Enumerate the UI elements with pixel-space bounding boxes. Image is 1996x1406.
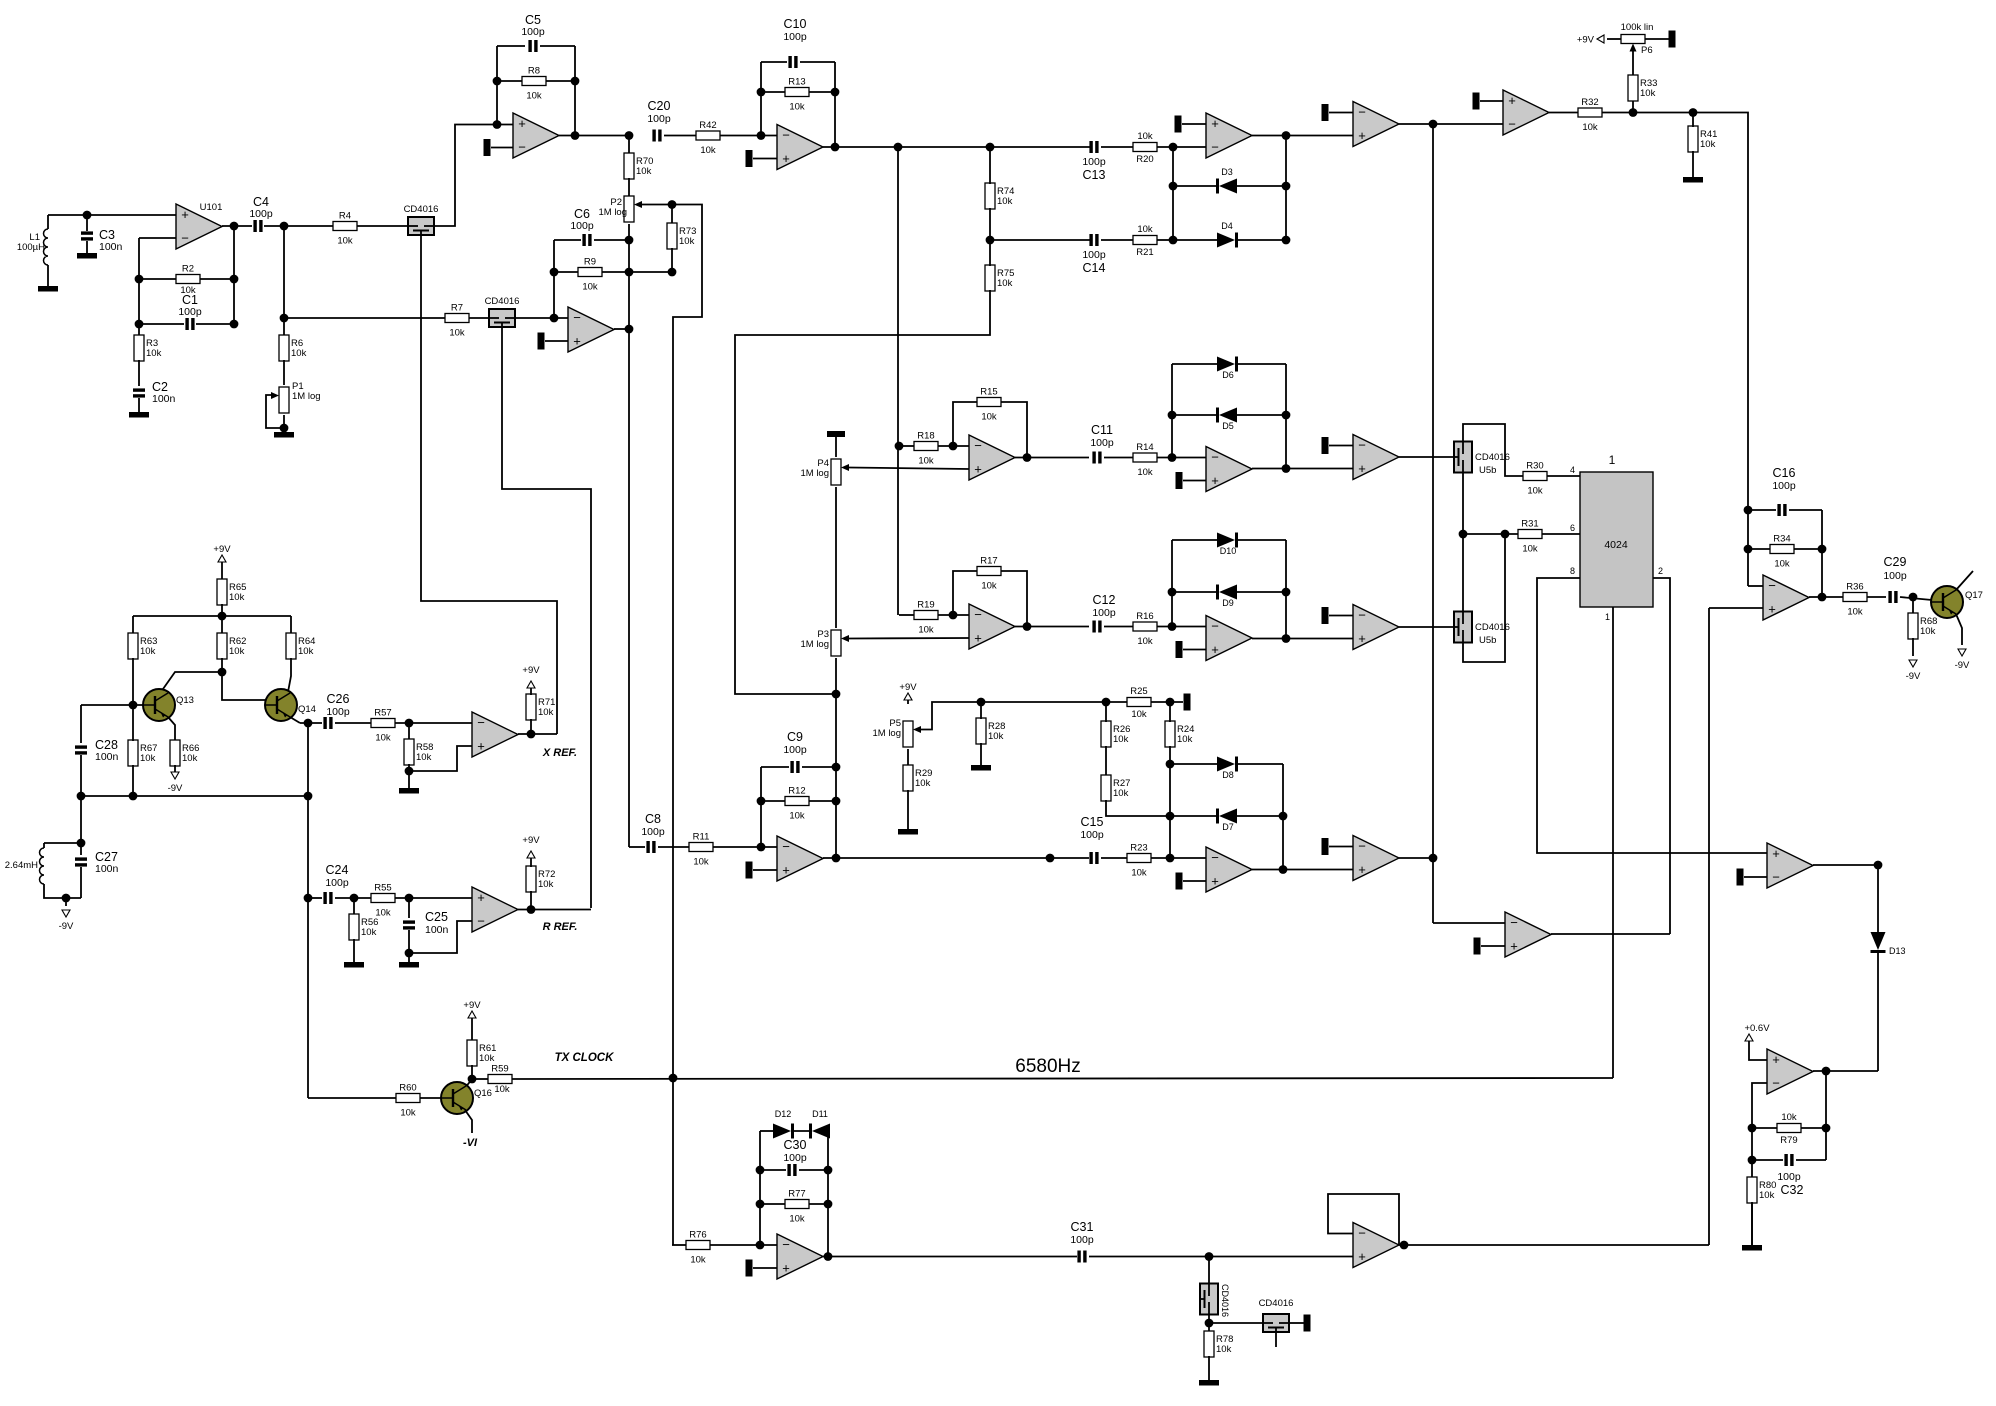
- capacitor C15: [1089, 852, 1092, 864]
- wire R7 to switch: [469, 317, 489, 319]
- svg-text:100n: 100n: [95, 751, 119, 763]
- wire R60 to Q16: [420, 1097, 442, 1099]
- wire R13 left node: [760, 62, 762, 136]
- wire ref to A3: [753, 869, 777, 871]
- resistor R63: [128, 633, 138, 659]
- svg-text:10k: 10k: [918, 456, 934, 467]
- svg-text:+: +: [181, 207, 189, 222]
- capacitor C30: [787, 1164, 790, 1176]
- svg-text:R32: R32: [1581, 97, 1598, 108]
- svg-text:R23: R23: [1130, 843, 1147, 854]
- svg-text:10k: 10k: [789, 102, 805, 113]
- power arrow: [1745, 1034, 1753, 1041]
- svg-text:C32: C32: [1781, 1183, 1804, 1197]
- resistor R42: [696, 131, 720, 140]
- wire P2 bottom bus: [628, 224, 630, 847]
- wire D3 right: [1237, 185, 1286, 187]
- wire input to U101: [48, 214, 176, 216]
- junction A5 out: [1282, 131, 1291, 140]
- resistor R3: [134, 335, 144, 361]
- wire C6 right: [594, 239, 629, 241]
- wire A9 output: [1015, 626, 1089, 628]
- svg-text:1M log: 1M log: [800, 468, 829, 479]
- resistor R75: [985, 265, 995, 291]
- resistor R70: [624, 153, 634, 179]
- wire R72 top: [530, 858, 532, 867]
- wire to A16: [1433, 922, 1505, 924]
- capacitor C12: [1092, 621, 1095, 633]
- resistor R23: [1127, 854, 1151, 863]
- junction emitter: [304, 719, 313, 728]
- svg-text:+: +: [1211, 473, 1219, 488]
- svg-text:Q17: Q17: [1965, 590, 1983, 601]
- wire to D8: [1170, 763, 1217, 765]
- wire R20 to ampA: [1157, 146, 1206, 148]
- svg-text:P6: P6: [1641, 45, 1653, 56]
- wire to R62: [221, 616, 223, 634]
- junction R77 left: [756, 1200, 765, 1209]
- wire C30 right: [799, 1169, 828, 1171]
- wire R3 to C2: [138, 360, 140, 386]
- wire to R59: [472, 1078, 488, 1080]
- svg-text:C20: C20: [648, 99, 671, 113]
- diode D3: [1219, 179, 1237, 194]
- junction R70 top: [625, 131, 634, 140]
- resistor R30: [1523, 472, 1547, 481]
- wire to R70: [628, 136, 630, 155]
- wire to switch: [1208, 1257, 1210, 1285]
- wire U101 output: [222, 225, 252, 227]
- wire P6 right: [1645, 38, 1669, 40]
- op-amp A4: [777, 125, 823, 170]
- junction C4 node: [280, 222, 289, 231]
- svg-text:R11: R11: [693, 832, 710, 843]
- resistor R73: [667, 223, 677, 249]
- svg-text:100p: 100p: [1883, 570, 1907, 582]
- wire switch1 control bus: [421, 236, 557, 734]
- junction R9 left: [550, 268, 559, 277]
- svg-text:C6: C6: [574, 207, 590, 221]
- resistor R18: [914, 442, 938, 451]
- svg-text:X REF.: X REF.: [542, 747, 577, 759]
- wire R27 to D7: [1106, 800, 1170, 816]
- svg-text:−: −: [518, 140, 526, 155]
- ground R29: [898, 829, 918, 835]
- wire C2 bottom: [138, 398, 140, 412]
- reference bar A4: [746, 150, 753, 167]
- wire A18 inverting node: [1752, 1083, 1767, 1245]
- svg-text:1M log: 1M log: [598, 207, 627, 218]
- op-amp A9: [969, 604, 1015, 649]
- junction R2 left: [135, 275, 144, 284]
- wire R79 right: [1801, 1127, 1826, 1129]
- svg-text:Q14: Q14: [298, 704, 316, 715]
- wire switch chain: [1462, 473, 1464, 611]
- wire ref to A13: [1329, 615, 1353, 617]
- junction A19 out: [1818, 593, 1827, 602]
- svg-text:10k: 10k: [1640, 88, 1656, 99]
- svg-text:−: −: [974, 438, 982, 453]
- potentiometer P1: [279, 387, 289, 413]
- resistor R6: [279, 335, 289, 361]
- wire C3 bottom: [86, 241, 88, 253]
- capacitor C20: [652, 130, 655, 142]
- svg-text:10k: 10k: [140, 753, 156, 764]
- wire to P4: [835, 437, 837, 457]
- junction supply rail: [218, 612, 227, 621]
- svg-text:R79: R79: [1780, 1135, 1797, 1146]
- op-amp A7: [1503, 90, 1549, 135]
- wire D4 right: [1237, 239, 1286, 241]
- svg-text:6580Hz: 6580Hz: [1015, 1056, 1081, 1077]
- junction rail right: [304, 792, 313, 801]
- svg-text:10k: 10k: [981, 412, 997, 423]
- wire ref to A2: [545, 340, 568, 342]
- wire C4 to R4: [264, 225, 333, 227]
- junction rail R67: [129, 792, 138, 801]
- svg-text:R REF.: R REF.: [543, 921, 578, 933]
- svg-text:10k: 10k: [229, 592, 245, 603]
- svg-text:R36: R36: [1846, 582, 1863, 593]
- wire rail to tank: [80, 796, 82, 843]
- wire C25 to - input: [409, 921, 472, 953]
- svg-text:10k: 10k: [1216, 1344, 1232, 1355]
- wire C28 bottom: [80, 755, 82, 796]
- diode D6: [1217, 357, 1235, 372]
- ground R58: [399, 788, 419, 794]
- svg-text:−: −: [1211, 450, 1219, 465]
- wire to R73: [671, 205, 673, 225]
- svg-text:1: 1: [1609, 453, 1616, 467]
- svg-text:CD4016: CD4016: [1259, 1298, 1294, 1309]
- wire P3 bottom: [835, 658, 837, 694]
- op-amp A23: [1353, 1223, 1399, 1268]
- wire to R60: [308, 1097, 396, 1099]
- junction mid: [1046, 854, 1055, 863]
- svg-text:−: −: [1358, 839, 1366, 854]
- wire ref to A22: [753, 1267, 777, 1269]
- wire R63 bottom: [132, 658, 134, 705]
- svg-text:−: −: [1772, 1076, 1780, 1091]
- wire coil bottom: [44, 884, 81, 898]
- op-amp A13: [1353, 605, 1399, 650]
- transistor Q17: [1931, 586, 1963, 618]
- junction A22 out: [824, 1252, 833, 1261]
- junction C1 left: [135, 320, 144, 329]
- inductor L1: [44, 229, 49, 265]
- wire to Q16 collector: [465, 1079, 472, 1088]
- wire tank top: [44, 842, 81, 844]
- svg-text:10k: 10k: [1113, 734, 1129, 745]
- svg-text:100p: 100p: [783, 1152, 807, 1164]
- svg-text:10k: 10k: [1847, 607, 1863, 618]
- junction D7 left: [1166, 812, 1175, 821]
- power arrow: [527, 681, 535, 688]
- svg-text:R14: R14: [1136, 442, 1153, 453]
- wire to R79: [1752, 1127, 1777, 1129]
- IC 4024: [1580, 472, 1653, 607]
- wire amp3 output bus: [835, 694, 837, 858]
- svg-text:10k: 10k: [291, 348, 307, 359]
- svg-text:+: +: [1358, 128, 1366, 143]
- wire D6 right: [1237, 363, 1286, 365]
- resistor R21: [1133, 236, 1157, 245]
- svg-text:100n: 100n: [99, 241, 123, 253]
- svg-text:−: −: [782, 1237, 790, 1252]
- resistor R2: [176, 275, 200, 284]
- svg-text:R19: R19: [917, 600, 934, 611]
- svg-text:U5b: U5b: [1479, 465, 1496, 476]
- svg-text:10k: 10k: [1137, 131, 1153, 142]
- resistor R34: [1770, 545, 1794, 554]
- analog switch CD4016 U1b: [489, 309, 515, 327]
- svg-text:10k: 10k: [789, 1214, 805, 1225]
- capacitor C8: [646, 841, 649, 853]
- svg-text:−: −: [782, 839, 790, 854]
- svg-text:R57: R57: [374, 708, 391, 719]
- wire R6 to P1: [283, 360, 285, 385]
- capacitor C27: [75, 857, 87, 860]
- svg-text:D9: D9: [1222, 598, 1234, 608]
- wire to R34: [1748, 548, 1770, 550]
- svg-text:10k: 10k: [918, 625, 934, 636]
- svg-text:10k: 10k: [1113, 788, 1129, 799]
- wire R65 bottom: [221, 604, 223, 616]
- wire to C14: [990, 239, 1090, 241]
- op-amp A19: [1763, 575, 1809, 620]
- wire to D13: [1877, 865, 1879, 936]
- svg-text:10k: 10k: [146, 348, 162, 359]
- wire P5 to R29: [907, 749, 909, 766]
- capacitor C25: [403, 920, 415, 923]
- wire A23 feedback loop: [1328, 1194, 1399, 1245]
- reference bar P6: [1669, 31, 1676, 48]
- diode D8: [1217, 757, 1235, 772]
- wire to C16: [1748, 509, 1776, 511]
- svg-text:R60: R60: [399, 1083, 416, 1094]
- wire to R41: [1692, 113, 1694, 128]
- ground R41: [1683, 177, 1703, 183]
- op-amp A3: [777, 836, 823, 881]
- transistor Q14: [265, 689, 297, 721]
- resistor R32: [1578, 108, 1602, 117]
- svg-text:+: +: [1772, 1052, 1780, 1067]
- wire pin2 down: [1653, 578, 1670, 934]
- svg-text:4024: 4024: [1604, 539, 1628, 551]
- op-amp A2: [568, 307, 614, 352]
- svg-text:+: +: [1358, 862, 1366, 877]
- wire to C30: [760, 1169, 786, 1171]
- junction D3 right: [1282, 182, 1291, 191]
- resistor R78: [1204, 1331, 1214, 1357]
- reference bar A2: [538, 333, 545, 350]
- svg-text:10k: 10k: [1700, 139, 1716, 150]
- wire C32 right: [1796, 1159, 1826, 1161]
- junction R12 left: [757, 797, 766, 806]
- resistor R61: [467, 1040, 477, 1066]
- junction bus x1433: [1429, 120, 1438, 129]
- resistor R62: [217, 633, 227, 659]
- wire +9V to R65: [221, 562, 223, 580]
- resistor R4: [333, 222, 357, 231]
- svg-text:+: +: [573, 334, 581, 349]
- power +9V: [1597, 35, 1604, 43]
- junction sample node: [1205, 1252, 1214, 1261]
- junction C6 right: [625, 236, 634, 245]
- svg-text:C4: C4: [253, 195, 269, 209]
- wire bus to R18: [899, 445, 914, 447]
- wire C5 node right: [574, 46, 576, 136]
- svg-text:CD4016: CD4016: [1220, 1284, 1230, 1317]
- wire D9/D10 right node: [1285, 540, 1287, 639]
- svg-text:10k: 10k: [997, 278, 1013, 289]
- junction Q13 base: [129, 701, 138, 710]
- svg-text:C11: C11: [1091, 423, 1113, 437]
- junction R77 node: [756, 1241, 765, 1250]
- svg-text:10k: 10k: [337, 236, 353, 247]
- wire ref to A1: [491, 147, 513, 149]
- svg-text:−: −: [1510, 915, 1518, 930]
- wire R68 bottom: [1912, 638, 1914, 656]
- svg-text:+: +: [1768, 602, 1776, 617]
- junction TX clock bus: [669, 1074, 678, 1083]
- svg-text:CD4016: CD4016: [485, 296, 520, 307]
- wire R14 to amp: [1157, 457, 1206, 459]
- capacitor C11: [1092, 452, 1095, 464]
- op-amp A15: [1353, 836, 1399, 881]
- wire hold control: [1275, 1333, 1277, 1347]
- wire R19 to amp: [938, 614, 969, 616]
- capacitor C9: [790, 761, 793, 773]
- svg-text:R18: R18: [917, 431, 934, 442]
- capacitor C31: [1077, 1251, 1080, 1263]
- wire switch right: [1289, 1322, 1304, 1324]
- wire C10 left: [761, 61, 787, 63]
- wire to C32: [1752, 1159, 1783, 1161]
- wire to C27: [80, 843, 82, 855]
- svg-text:-VI: -VI: [463, 1137, 478, 1149]
- resistor R19: [914, 611, 938, 620]
- wire to R17: [953, 571, 977, 615]
- svg-text:10k: 10k: [538, 879, 554, 890]
- svg-text:C5: C5: [525, 13, 541, 27]
- wire R78 to ground: [1208, 1356, 1210, 1380]
- svg-text:D7: D7: [1222, 822, 1234, 832]
- wire to R31: [1463, 533, 1518, 535]
- svg-text:4: 4: [1570, 465, 1575, 475]
- svg-text:−: −: [477, 914, 485, 929]
- svg-text:Q13: Q13: [176, 695, 194, 706]
- wire C5 node left: [496, 46, 498, 125]
- capacitor C5: [528, 40, 531, 52]
- svg-text:−: −: [477, 715, 485, 730]
- junction R8 right: [571, 77, 580, 86]
- svg-text:+: +: [782, 151, 790, 166]
- wire R26 to R27: [1105, 746, 1107, 776]
- wire switch bottom: [1208, 1315, 1210, 1332]
- wire bus to C24: [308, 897, 322, 899]
- wire to C25: [408, 898, 410, 918]
- wire C5 right: [540, 45, 575, 47]
- wire D5 right: [1237, 414, 1286, 416]
- svg-text:10k: 10k: [375, 908, 391, 919]
- wire R66 bottom: [174, 765, 176, 772]
- wire D5/D6 right node: [1285, 364, 1287, 469]
- svg-text:10k: 10k: [1522, 544, 1538, 555]
- svg-text:-9V: -9V: [59, 921, 74, 932]
- svg-text:10k: 10k: [1527, 486, 1543, 497]
- svg-text:TX CLOCK: TX CLOCK: [555, 1052, 614, 1064]
- svg-text:R7: R7: [451, 303, 463, 314]
- svg-text:−: −: [782, 128, 790, 143]
- power arrow: [62, 910, 70, 917]
- svg-text:+9V: +9V: [1577, 35, 1595, 46]
- junction D3 left: [1169, 182, 1178, 191]
- resistor R80: [1747, 1177, 1757, 1203]
- wire A14 out to follower: [1252, 869, 1353, 871]
- op-amp A22: [777, 1234, 823, 1279]
- svg-text:C10: C10: [784, 17, 807, 31]
- capacitor C1: [185, 318, 188, 330]
- svg-text:100p: 100p: [783, 31, 807, 43]
- wire A5 output to A6: [1252, 135, 1353, 137]
- wire P4 to P3: [835, 487, 837, 628]
- wire to R8: [497, 80, 522, 82]
- svg-text:R20: R20: [1136, 154, 1153, 165]
- wire P3 wiper to A9: [849, 637, 969, 640]
- junction rail C28: [77, 792, 86, 801]
- wire to D9: [1172, 591, 1217, 593]
- svg-text:100µH: 100µH: [17, 242, 45, 253]
- junction D5 left: [1168, 411, 1177, 420]
- wire Q14 emitter: [290, 717, 300, 723]
- resistor R56: [349, 914, 359, 940]
- wire R23 to amp: [1151, 857, 1206, 859]
- svg-text:10k: 10k: [700, 145, 716, 156]
- reference bar A7: [1473, 93, 1480, 110]
- svg-text:1M log: 1M log: [800, 639, 829, 650]
- power arrow: [1909, 660, 1917, 667]
- wire bottom rail: [81, 795, 308, 797]
- capacitor C10: [788, 56, 791, 68]
- svg-text:D13: D13: [1889, 946, 1906, 956]
- junction D9 node: [1168, 622, 1177, 631]
- wire to R7: [284, 317, 445, 319]
- wire feedback left node: [138, 238, 140, 336]
- svg-text:+: +: [974, 462, 982, 477]
- resistor R77: [785, 1200, 809, 1209]
- wire R4 to switch: [357, 225, 408, 227]
- svg-text:D6: D6: [1222, 370, 1234, 380]
- wire R11 to amp3: [713, 846, 777, 848]
- op-amp A14: [1206, 847, 1252, 892]
- wire ref to A16: [1481, 945, 1505, 947]
- junction R13 right: [831, 88, 840, 97]
- capacitor C3: [81, 231, 93, 234]
- wire C4 node down: [283, 226, 285, 336]
- power arrow: [527, 851, 535, 858]
- wire ref to A6: [1329, 112, 1353, 114]
- svg-text:U101: U101: [200, 202, 223, 213]
- junction A4 out: [831, 143, 840, 152]
- svg-text:C13: C13: [1083, 168, 1106, 182]
- junction Q13 collector: [218, 668, 227, 677]
- svg-text:R15: R15: [980, 387, 997, 398]
- wire switch to R30: [1463, 424, 1523, 476]
- junction bus x898: [894, 143, 903, 152]
- ground R56: [344, 962, 364, 968]
- wire Q14 to C26: [300, 722, 322, 724]
